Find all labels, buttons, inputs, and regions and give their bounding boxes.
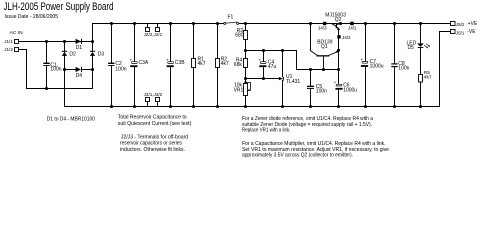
diode D2 [62,51,67,52]
connector J2/1 [157,24,159,28]
capacitor C7 [364,22,367,25]
connector J2/2 [147,24,149,28]
svg-text:D3: D3 [98,51,105,57]
wire raw +V rail [93,23,224,25]
svg-text:100n: 100n [316,88,327,94]
svg-text:C3A: C3A [139,60,149,66]
svg-text:D1: D1 [76,45,83,51]
svg-text:4k7: 4k7 [221,61,229,67]
resistor R5 [419,75,423,83]
svg-text:J4/2: J4/2 [342,35,351,40]
capacitor C4 [262,49,265,52]
svg-text:-VE: -VE [467,29,476,35]
node bridge right mid [91,68,94,71]
capacitor C5 [309,68,312,71]
svg-text:Issue Date - 28/06/2005: Issue Date - 28/06/2005 [5,14,59,20]
svg-text:680: 680 [235,33,244,39]
wire AC1 top rail from J1/1 to bridge [19,41,93,43]
connector J5/2 [451,22,456,26]
connector J3/1 [146,98,150,102]
svg-text:approximately 3.5V across Q2 (: approximately 3.5V across Q2 (collector … [242,153,353,159]
capacitor C6 [338,70,340,85]
svg-text:suit Quiescent Current (see te: suit Quiescent Current (see text) [118,121,192,127]
connector J3/2 [156,98,160,102]
svg-text:D2: D2 [69,51,76,57]
svg-text:68k: 68k [234,62,243,68]
connector J5/1 [451,30,456,34]
wire Q2 emitter [338,28,339,36]
potentiometer VR1 [245,79,247,84]
connector J4/1 [350,22,354,26]
svg-text:Replace VR1 with a link.: Replace VR1 with a link. [242,128,291,134]
svg-text:JLH-2005 Power Supply Board: JLH-2005 Power Supply Board [4,1,114,13]
diode D4 [65,69,76,71]
svg-text:1000u: 1000u [343,87,357,93]
capacitor C1 [46,42,48,63]
resistor R3 [244,22,247,25]
connector J4/3 [323,22,326,25]
node bridge left top [63,40,66,43]
svg-text:J2/2,J2/1: J2/2,J2/1 [144,32,163,37]
diode D1 [65,41,76,43]
svg-text:4k7: 4k7 [198,61,206,67]
resistor R4 [245,51,247,59]
node C1 top [45,40,48,43]
connector J4/2 [337,35,340,38]
svg-text:1000u: 1000u [370,63,384,69]
svg-text:C3B: C3B [175,60,185,66]
svg-text:J2/J3 - Terminals for off-boar: J2/J3 - Terminals for off-board [121,134,188,140]
shunt regulator U1 TL431 [281,49,284,52]
svg-text:47u: 47u [268,64,277,70]
wire -VE return [440,32,451,107]
capacitor C3A [133,22,136,25]
svg-text:J3/1,J3/2: J3/1,J3/2 [144,92,163,97]
wire 0V bottom rail [65,106,440,108]
wire base node line [297,69,339,71]
wire bridge right vertical [92,24,94,52]
svg-text:F1: F1 [228,15,234,21]
resistor R1 [192,22,195,25]
svg-text:100n: 100n [398,65,409,71]
node bridge left mid [63,68,66,71]
wire ref divider line [246,78,279,80]
capacitor C3B [169,22,172,25]
svg-text:Total Reservoir Capacitance to: Total Reservoir Capacitance to [118,115,187,121]
wire Q2 collector [337,24,341,25]
svg-text:100n: 100n [115,66,126,72]
svg-text:J5/1: J5/1 [456,31,465,36]
svg-text:J4/1: J4/1 [348,25,357,30]
wire AC2 from J1/2 down and right [19,50,93,89]
svg-text:VR1: VR1 [234,88,244,94]
svg-text:D4: D4 [76,73,83,79]
LED D5 [419,22,422,25]
diode D3 [90,51,95,52]
node C1 bottom [45,87,48,90]
wire bridge left vertical [64,42,66,52]
wire reference node line [246,51,297,70]
node bridge right top [91,40,94,43]
svg-text:J5/2: J5/2 [456,22,465,27]
capacitor C2 [110,22,113,25]
svg-text:Q1: Q1 [321,44,328,50]
svg-text:J4/3: J4/3 [318,26,327,31]
svg-text:D5: D5 [408,45,415,51]
svg-text:inductors. Otherwise fit link: inductors. Otherwise fit links. [120,147,185,153]
svg-text:AC IN: AC IN [10,30,24,36]
resistor R2 [216,22,219,25]
wire output emitter column [338,39,340,70]
svg-text:J1/2: J1/2 [4,47,13,52]
svg-text:J1/1: J1/1 [4,39,13,44]
svg-text:4k7: 4k7 [424,74,432,80]
capacitor C8 [393,22,396,25]
svg-text:+VE: +VE [468,21,478,27]
svg-text:D1 to D4 - MBR10100: D1 to D4 - MBR10100 [47,117,96,123]
svg-text:reservoir capacitors or series: reservoir capacitors or series [120,141,182,147]
svg-text:100n: 100n [50,67,61,73]
wire Q2 base [327,24,336,27]
svg-text:TL431: TL431 [286,79,300,85]
